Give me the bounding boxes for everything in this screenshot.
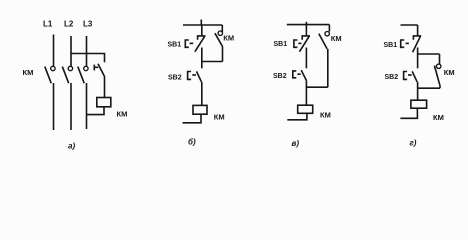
wire branch to coil <box>104 77 106 98</box>
contact KM latch (d) <box>434 64 441 85</box>
label KM coil (b) <box>214 113 225 122</box>
svg-text:КМ: КМ <box>331 34 342 43</box>
wire phase L3 upper <box>86 36 88 66</box>
label KM main contacts <box>23 68 34 77</box>
wire main drop to SB1 (b) <box>201 25 203 35</box>
wire latch rejoin (d) <box>418 87 440 89</box>
node L1 label <box>43 20 53 29</box>
wire coil bottom tail (d) <box>400 108 417 118</box>
svg-text:SB1: SB1 <box>168 42 182 49</box>
wire top rail (d) <box>401 24 418 26</box>
label KM latch (c) <box>331 34 342 43</box>
wire latch branch drop (b) <box>221 25 223 33</box>
label KM coil (d) <box>433 113 444 122</box>
coil KM (c) <box>298 105 313 113</box>
svg-text:SB2: SB2 <box>385 74 399 81</box>
wire SB2 to coil (b) <box>201 82 203 106</box>
button SB2 (c) <box>293 70 307 81</box>
svg-text:КМ: КМ <box>320 111 331 120</box>
svg-text:КМ: КМ <box>23 68 34 77</box>
button SB1 (d) <box>401 36 422 52</box>
svg-text:в): в) <box>292 139 300 148</box>
wire SB1 to SB2 (c) <box>305 48 307 69</box>
wire rejoin to coil (d) <box>417 88 419 100</box>
wire phase L2 upper <box>70 36 72 66</box>
caption g) <box>410 139 417 148</box>
svg-text:КМ: КМ <box>223 34 234 43</box>
svg-text:SB2: SB2 <box>273 73 287 80</box>
node L2 label <box>64 20 74 29</box>
wire phase L3 lower <box>86 83 88 129</box>
button SB2 (b) <box>188 71 202 81</box>
label SB2 (d) <box>385 74 399 81</box>
wire SB2 to rejoin (d) <box>417 82 419 88</box>
label KM coil (c) <box>320 111 331 120</box>
caption v) <box>292 139 300 148</box>
label SB1 (d) <box>384 42 398 49</box>
button SB in coil branch <box>94 64 104 77</box>
wire phase L1 upper <box>53 35 55 67</box>
node L3 label <box>83 20 93 29</box>
wire phase L1 lower <box>53 83 55 130</box>
label SB2 (b) <box>168 75 182 82</box>
wire supply stub (c) <box>305 22 307 25</box>
coil KM (a) <box>97 98 111 107</box>
svg-text:L3: L3 <box>83 20 93 29</box>
wire tap from L2 to coil branch <box>71 54 105 63</box>
wire top rail (c) <box>287 24 330 26</box>
wire tap below SB1 (d) <box>418 53 440 55</box>
svg-text:КМ: КМ <box>117 110 128 119</box>
contact KM pole1 <box>45 66 55 83</box>
wire latch branch lower (c) <box>327 49 329 87</box>
wire latch branch lower (b) <box>222 47 224 62</box>
svg-text:КМ: КМ <box>444 68 455 77</box>
label KM latch (d) <box>444 68 455 77</box>
wire SB2 to coil (c) <box>305 81 307 105</box>
caption a) <box>68 142 75 151</box>
svg-text:SB1: SB1 <box>274 41 288 48</box>
wire coil bottom tail (b) <box>183 114 202 123</box>
wire main drop to SB1 (c) <box>305 25 307 36</box>
wire phase L2 lower <box>70 83 72 130</box>
svg-text:SB1: SB1 <box>384 42 398 49</box>
wire latch rejoin (b) <box>202 61 223 63</box>
caption b) <box>188 138 196 147</box>
wire SB1 to SB2 (b) <box>201 48 203 69</box>
svg-text:КМ: КМ <box>433 113 444 122</box>
wire latch branch lower (d) <box>439 85 441 88</box>
svg-text:а): а) <box>68 142 75 151</box>
label KM coil (a) <box>117 110 128 119</box>
svg-text:SB2: SB2 <box>168 75 182 82</box>
svg-text:L2: L2 <box>64 20 74 29</box>
contact KM latch (c) <box>319 32 330 49</box>
button SB2 (d) <box>404 71 418 81</box>
button SB1 (b) <box>185 36 205 52</box>
label KM latch (b) <box>223 34 234 43</box>
contact KM latch (b) <box>215 31 223 47</box>
svg-text:КМ: КМ <box>214 113 225 122</box>
coil KM (b) <box>193 105 207 114</box>
label SB1 (b) <box>168 42 182 49</box>
wire latch branch drop (c) <box>328 25 330 32</box>
svg-text:б): б) <box>188 138 196 147</box>
svg-text:г): г) <box>410 139 417 148</box>
svg-text:L1: L1 <box>43 20 53 29</box>
wire coil bottom tail (c) <box>287 113 307 120</box>
wire SB1 to SB2 (d) <box>417 48 419 69</box>
wire top rail (b) <box>183 24 222 26</box>
contact KM pole2 <box>62 66 72 83</box>
coil KM (d) <box>411 100 427 108</box>
wire supply stub (b) <box>200 20 202 26</box>
wire coil bottom to L3 <box>87 107 105 115</box>
wire latch branch drop (d) <box>439 54 441 64</box>
label SB1 (c) <box>274 41 288 48</box>
contact KM pole3 <box>78 66 88 83</box>
wire latch rejoin (c) <box>306 86 327 88</box>
wire main drop to SB1 (d) <box>417 25 419 35</box>
label SB2 (c) <box>273 73 287 80</box>
button SB1 (c) <box>294 36 310 52</box>
